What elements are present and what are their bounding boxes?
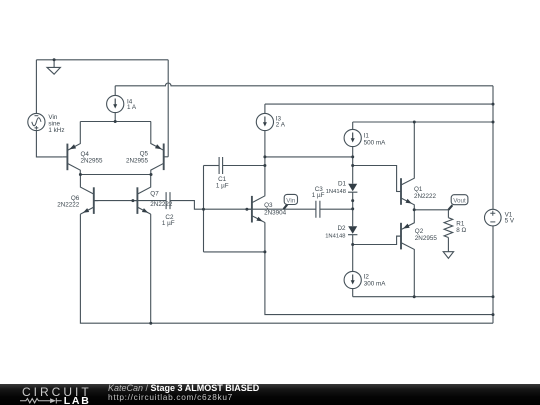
svg-text:300 mA: 300 mA [364,281,387,288]
svg-text:2N2222: 2N2222 [150,201,173,208]
svg-text:1 µF: 1 µF [162,220,175,227]
svg-text:1 µF: 1 µF [312,192,325,199]
svg-text:I2: I2 [364,274,370,281]
svg-text:1 kHz: 1 kHz [48,127,64,134]
svg-text:Vout: Vout [453,198,466,205]
svg-text:2N2955: 2N2955 [81,158,104,165]
svg-text:D1: D1 [338,181,347,188]
svg-text:2N3904: 2N3904 [264,210,287,217]
svg-text:Q1: Q1 [414,186,423,193]
svg-text:2N2955: 2N2955 [126,157,149,164]
svg-text:2 A: 2 A [276,122,286,129]
svg-text:Vin: Vin [286,197,295,204]
svg-text:5 V: 5 V [505,218,515,225]
svg-text:2N2222: 2N2222 [414,193,437,200]
svg-text:2N2955: 2N2955 [415,235,438,242]
svg-text:2N2222: 2N2222 [57,201,80,208]
svg-text:1 µF: 1 µF [216,183,229,190]
svg-text:500 mA: 500 mA [364,140,387,147]
svg-text:I1: I1 [364,133,370,140]
svg-text:1N4148: 1N4148 [325,233,345,239]
svg-text:Q3: Q3 [264,202,273,209]
svg-text:8 Ω: 8 Ω [456,227,466,234]
svg-text:D2: D2 [337,225,346,232]
svg-text:1N4148: 1N4148 [326,189,346,195]
svg-text:Q2: Q2 [415,228,424,235]
svg-text:Q7: Q7 [150,191,159,198]
svg-text:1 A: 1 A [127,104,137,111]
